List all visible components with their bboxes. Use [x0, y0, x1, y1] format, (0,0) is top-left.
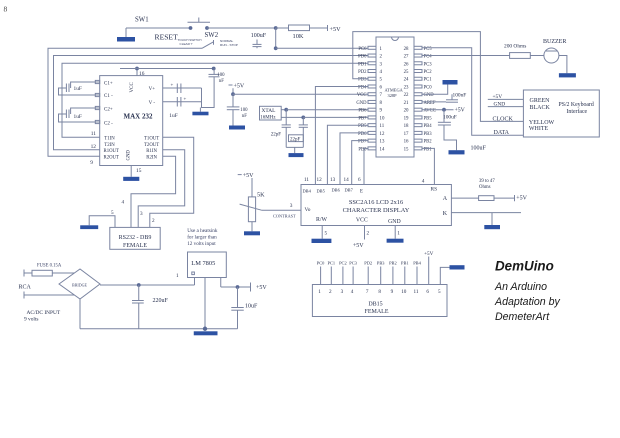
svg-text:ATMEGA: ATMEGA [385, 88, 404, 93]
svg-text:PC0: PC0 [317, 260, 325, 265]
svg-text:6: 6 [426, 289, 429, 295]
wire RESET to PC6 [276, 47, 368, 49]
MAX232 pin 16 VCC [136, 69, 138, 76]
svg-text:PC2: PC2 [424, 70, 433, 75]
svg-text:1uF: 1uF [169, 113, 177, 119]
svg-text:MAX 232: MAX 232 [124, 112, 153, 120]
ground bar (XTAL caps) [286, 146, 303, 148]
ground bar (DB15 pin5) [450, 265, 465, 269]
connector J2 PS-2 keyboard interface [523, 90, 599, 137]
ground bar (reset switch) [117, 37, 135, 42]
svg-text:C1 -: C1 - [104, 94, 113, 99]
LM7805 ground pin [204, 278, 206, 329]
svg-text:39 to 47: 39 to 47 [479, 179, 495, 184]
svg-text:T1OUT: T1OUT [144, 136, 159, 141]
svg-text:PC1: PC1 [424, 78, 433, 83]
svg-text:5: 5 [380, 78, 383, 83]
svg-text:5K: 5K [257, 191, 265, 198]
svg-text:16: 16 [404, 140, 409, 145]
wire GND pin22 [422, 85, 448, 95]
svg-text:VCC: VCC [357, 93, 367, 98]
svg-text:12 volts input: 12 volts input [187, 241, 216, 247]
DB15 pin 8 PB3 [380, 267, 382, 285]
svg-text:5: 5 [438, 289, 441, 295]
svg-text:25: 25 [404, 70, 409, 75]
ATmega pin 19 PB5 [414, 116, 422, 119]
potentiometer 5K [251, 178, 253, 197]
svg-text:Ohms: Ohms [479, 185, 491, 190]
svg-text:13: 13 [380, 140, 385, 145]
svg-text:1: 1 [397, 231, 400, 237]
svg-text:WHITE: WHITE [529, 126, 549, 132]
wire RXD net [54, 56, 368, 150]
svg-text:PB5: PB5 [424, 116, 433, 121]
svg-text:PB4: PB4 [424, 124, 433, 129]
ground bar (ATmega GND) [443, 80, 458, 85]
DB15 pin 6 +5V [428, 257, 430, 285]
LCD GND ground [394, 226, 396, 239]
svg-text:FUSE 0.15A: FUSE 0.15A [37, 263, 62, 268]
svg-text:PC3: PC3 [349, 260, 357, 265]
svg-text:C2 -: C2 - [104, 121, 113, 126]
wire PC5 to PS2 DATA [422, 48, 523, 135]
svg-text:GND: GND [356, 101, 367, 106]
svg-text:6: 6 [358, 177, 361, 183]
LM7805 input pin [194, 278, 196, 286]
svg-text:XTAL: XTAL [262, 108, 276, 114]
svg-text:+5V: +5V [516, 195, 527, 201]
svg-text:10K: 10K [293, 33, 304, 40]
DB15 pin 3 PC2 [342, 267, 344, 285]
pot to ground [251, 222, 253, 232]
svg-text:5: 5 [111, 210, 114, 216]
svg-text:16MHz: 16MHz [260, 116, 276, 121]
svg-text:+: + [171, 83, 174, 88]
svg-text:BUZZER: BUZZER [543, 39, 566, 45]
svg-text:1: 1 [176, 273, 179, 279]
svg-text:+5V: +5V [234, 83, 245, 89]
svg-text:7: 7 [366, 289, 369, 295]
svg-text:R2OUT: R2OUT [104, 156, 120, 161]
capacitor C4 (V-) [163, 101, 202, 103]
DB15 pin 9 PB2 [392, 267, 394, 285]
DB15 pin 4 PC3 [352, 267, 354, 285]
svg-text:PB1: PB1 [401, 260, 409, 265]
svg-text:nF: nF [242, 114, 247, 119]
svg-text:13: 13 [330, 177, 336, 183]
ground bar (VCC decoupling) [229, 126, 245, 130]
DB15 pin 5 ground [440, 267, 450, 284]
svg-text:DemUino: DemUino [495, 259, 554, 274]
wire bridge to rail [79, 299, 81, 329]
ATmega pin 26 PC3 [414, 62, 422, 65]
wire PD5 to LCD DB5 [327, 125, 367, 184]
svg-text:12: 12 [380, 132, 385, 137]
DB15 pin 2 PC1 [330, 267, 332, 285]
svg-text:3: 3 [140, 211, 143, 217]
svg-text:DemeterArt: DemeterArt [495, 311, 550, 323]
svg-text:R/W: R/W [316, 217, 327, 223]
svg-text:PB7: PB7 [358, 116, 367, 121]
RCA input ticks [23, 270, 25, 277]
svg-text:11: 11 [380, 124, 385, 129]
svg-text:9: 9 [391, 289, 394, 295]
svg-text:PC2: PC2 [339, 260, 347, 265]
svg-text:9: 9 [90, 160, 93, 166]
wire TXD net [62, 63, 368, 137]
regulator U3 LM7805 [188, 252, 227, 278]
svg-text:3: 3 [380, 62, 383, 67]
resistor backlight 39-47 Ohms [451, 197, 478, 199]
svg-text:1: 1 [380, 47, 383, 52]
svg-text:RCA: RCA [19, 285, 32, 291]
svg-text:8: 8 [4, 5, 8, 14]
ATmega pin 3 PD1 [368, 62, 376, 65]
svg-text:A: A [443, 196, 448, 202]
svg-text:14: 14 [344, 177, 350, 183]
svg-text:3: 3 [290, 203, 293, 209]
ground bar (MAX232 pin15) [123, 177, 139, 181]
svg-text:T2OUT: T2OUT [144, 143, 159, 148]
svg-text:100uF: 100uF [251, 33, 267, 39]
svg-text:2: 2 [329, 289, 332, 295]
svg-text:AC/DC INPUT: AC/DC INPUT [27, 310, 61, 316]
svg-text:FEMALE: FEMALE [365, 309, 389, 315]
svg-text:K: K [443, 211, 448, 217]
svg-text:10: 10 [401, 289, 407, 295]
capacitor C1 1uF [71, 82, 100, 88]
svg-text:100uF: 100uF [443, 115, 457, 121]
svg-text:V+: V+ [149, 87, 156, 92]
+5V supply (ATmega VCC) [229, 84, 233, 86]
node RESET junction [274, 26, 278, 30]
ATmega pin 7 VCC [368, 93, 376, 96]
svg-text:12: 12 [91, 144, 97, 150]
wire LCD K to ground [451, 212, 521, 214]
svg-text:SW1: SW1 [135, 17, 149, 24]
connector J3 DB15 body [312, 285, 447, 317]
svg-text:4: 4 [351, 289, 354, 295]
svg-text:C2+: C2+ [104, 107, 113, 112]
svg-text:PC3: PC3 [424, 62, 433, 67]
svg-text:V -: V - [149, 101, 156, 106]
capacitor 10uF [237, 287, 239, 308]
svg-text:CONTRAST: CONTRAST [273, 213, 296, 218]
svg-text:PB2: PB2 [389, 260, 397, 265]
wire VCC rail MAX232 [120, 68, 214, 70]
svg-text:11: 11 [91, 131, 96, 137]
svg-text:9 volts: 9 volts [24, 317, 39, 323]
DB15 pin 11 PB4 [416, 267, 418, 285]
svg-text:PS/2 Keyboard: PS/2 Keyboard [559, 102, 594, 108]
ground bar (MAX232 V caps) [199, 108, 201, 112]
svg-text:C1+: C1+ [104, 81, 113, 86]
capacitor 100nF (VCC decoupling) [232, 94, 234, 107]
svg-text:SSC2A16 LCD 2x16: SSC2A16 LCD 2x16 [349, 199, 403, 206]
ATmega pin 12 PD6 [368, 131, 376, 134]
ATmega pin 20 AVCC [414, 108, 422, 111]
wire DB9 pin5 to ground [89, 216, 115, 228]
wire XTAL1 net [281, 109, 286, 111]
DB15 pin 7 PD2 [367, 267, 369, 285]
svg-text:+5V: +5V [330, 26, 342, 33]
ATmega pin 15 PB1 [414, 147, 422, 150]
ATmega pin 9 PB6 [368, 108, 376, 111]
wire SW2 to R2OUT net [48, 48, 202, 156]
svg-text:10uF: 10uF [245, 304, 258, 310]
wire T1OUT to DB9 pin2 [150, 137, 194, 227]
svg-text:16: 16 [139, 71, 145, 77]
svg-text:4: 4 [380, 70, 383, 75]
ATmega pin 18 PB4 [414, 124, 422, 127]
+5V (contrast pot) [238, 174, 242, 176]
capacitor 100nF (MAX232 VCC) [209, 73, 220, 75]
capacitor 22pF (XTAL2) [302, 117, 304, 125]
svg-text:DATA: DATA [494, 130, 510, 136]
svg-text:10: 10 [380, 116, 385, 121]
ATmega pin 23 PC0 [414, 85, 422, 88]
capacitor C3 1uF (V+) [163, 87, 202, 89]
svg-text:9: 9 [380, 109, 383, 114]
capacitor 100nF (AREF) [422, 101, 446, 103]
svg-text:GND: GND [388, 219, 401, 225]
wire AC lower [24, 294, 74, 296]
svg-text:2: 2 [380, 55, 383, 60]
wire +5V output [221, 286, 251, 288]
svg-text:328P: 328P [388, 93, 398, 98]
svg-text:24: 24 [404, 78, 409, 83]
svg-text:100: 100 [217, 73, 225, 78]
DB15 pin 1 PC0 [320, 267, 322, 285]
svg-text:An Arduino: An Arduino [494, 281, 547, 293]
svg-text:PC1: PC1 [328, 260, 336, 265]
svg-text:26: 26 [404, 62, 409, 67]
ATmega pin 11 PD5 [368, 124, 376, 127]
ATmega pin 10 PB7 [368, 116, 376, 119]
ATmega pin 8 GND [368, 100, 376, 103]
svg-text:1: 1 [318, 289, 321, 295]
ground bar (buzzer) [559, 73, 576, 77]
op-amp U1 MAX232 body [100, 76, 163, 166]
LM7805 output pin [220, 278, 222, 288]
svg-text:5: 5 [325, 231, 328, 237]
wire PD6 to LCD DB6 [340, 133, 368, 185]
svg-text:Vo: Vo [305, 207, 311, 213]
svg-text:RESET: RESET [155, 33, 179, 42]
svg-text:R1OUT: R1OUT [104, 149, 120, 154]
svg-text:RS232 - DB9: RS232 - DB9 [119, 235, 152, 241]
svg-text:PD0: PD0 [358, 55, 367, 60]
ATmega pin 1 PC6 [368, 46, 376, 49]
svg-text:DB15: DB15 [368, 301, 382, 307]
svg-text:100uF: 100uF [471, 145, 487, 151]
svg-text:RUN - STOP: RUN - STOP [220, 43, 238, 47]
ATmega pin 16 PB2 [414, 139, 422, 142]
svg-text:SW2: SW2 [205, 32, 219, 39]
ATmega pin 4 PD2 [368, 70, 376, 73]
svg-text:+5V: +5V [256, 285, 267, 291]
svg-text:VCC: VCC [356, 217, 368, 223]
wire [126, 27, 190, 29]
svg-text:2: 2 [367, 231, 370, 237]
bridge rectifier [59, 269, 100, 299]
DB15 pin 10 PB1 [404, 267, 406, 285]
wire XTAL2 net [281, 116, 303, 118]
ATmega pin 21 AREF [414, 100, 422, 103]
IC U2 ATMEGA328 body [376, 37, 414, 157]
ground rail [80, 328, 238, 330]
svg-text:T1IN: T1IN [104, 136, 115, 141]
wire PD3 loop to PS2 CLOCK [353, 32, 524, 122]
capacitor 100uF (AVCC) [443, 110, 445, 123]
svg-text:GND: GND [127, 150, 132, 161]
+5V (reset pullup) [327, 25, 329, 31]
wire +5V to VCC pin7 [233, 93, 368, 95]
wire PD4 to LCD DB4 [315, 87, 367, 185]
svg-text:PB4: PB4 [413, 260, 421, 265]
svg-text:21: 21 [404, 101, 409, 106]
wire AVCC to +5V [422, 109, 454, 111]
svg-text:GREEN: GREEN [530, 98, 551, 104]
svg-text:CLOCK: CLOCK [493, 116, 514, 122]
wire [207, 27, 276, 29]
svg-text:22: 22 [404, 93, 409, 98]
MAX232 pin 15 ground stub [130, 166, 132, 177]
switch SW1 [189, 26, 193, 30]
svg-text:DB7: DB7 [345, 188, 354, 193]
wire bridge to regulator [100, 284, 195, 286]
svg-text:11: 11 [414, 289, 419, 295]
svg-text:E: E [360, 189, 363, 194]
ground bar (AVCC cap) [449, 150, 465, 154]
wire PB1 to LCD RS [422, 148, 434, 184]
ATmega pin 24 PC1 [414, 77, 422, 80]
capacitor 22pF (XTAL1) [285, 110, 287, 125]
wire buzzer to ground [559, 56, 567, 74]
svg-text:27: 27 [404, 55, 409, 60]
svg-text:1uF: 1uF [74, 114, 82, 120]
svg-text:8: 8 [380, 101, 383, 106]
svg-text:nF: nF [219, 79, 224, 84]
svg-text:PC6: PC6 [358, 47, 367, 52]
svg-text:for larger than: for larger than [187, 234, 217, 241]
svg-text:6: 6 [380, 85, 383, 90]
ground bar (DB9 pin5) [80, 225, 98, 229]
svg-text:220uF: 220uF [153, 298, 169, 304]
svg-text:Adaptation by: Adaptation by [494, 296, 560, 308]
connector J1 RS232 DB9 [110, 227, 160, 249]
svg-text:Interface: Interface [567, 108, 588, 115]
svg-text:17: 17 [404, 132, 409, 137]
svg-text:DB5: DB5 [317, 188, 326, 193]
svg-text:100nF: 100nF [453, 92, 467, 98]
switch SW2 [202, 42, 214, 49]
svg-text:23: 23 [404, 85, 409, 90]
svg-text:+5V: +5V [455, 108, 466, 114]
svg-text:BLACK: BLACK [530, 105, 551, 111]
ATmega pin 22 GND [414, 93, 422, 96]
ATmega pin 25 PC2 [414, 70, 422, 73]
ATmega pin 14 PB0 [368, 147, 376, 150]
svg-text:+5V: +5V [424, 251, 434, 257]
wire PB0 to LCD E [364, 148, 368, 184]
svg-text:11: 11 [304, 177, 309, 183]
svg-text:Use a heatsink: Use a heatsink [187, 228, 218, 234]
svg-text:19: 19 [404, 116, 409, 121]
crystal X1 16MHz [260, 106, 282, 120]
LCD display module [301, 185, 451, 226]
ATmega pin 17 PB3 [414, 131, 422, 134]
svg-text:DB4: DB4 [303, 188, 312, 193]
svg-text:8: 8 [378, 289, 381, 295]
wire PD7 to LCD DB7 [352, 141, 368, 185]
svg-text:T2IN: T2IN [104, 143, 115, 148]
ATmega pin 2 PD0 [368, 54, 376, 57]
svg-text:4: 4 [122, 200, 125, 206]
LCD VCC +5V [364, 226, 366, 240]
wire PC4 to buzzer [422, 55, 510, 57]
svg-text:VCC: VCC [130, 82, 135, 93]
resistor 10K [276, 27, 289, 29]
svg-text:100: 100 [240, 108, 248, 113]
svg-text:12: 12 [317, 177, 323, 183]
svg-text:20: 20 [404, 109, 409, 114]
svg-text:RS: RS [431, 187, 438, 193]
ATmega pin 6 PD4 [368, 85, 376, 88]
ATmega pin 28 PC5 [414, 46, 422, 49]
svg-text:1uF: 1uF [74, 86, 82, 92]
svg-text:7: 7 [380, 93, 383, 98]
svg-text:PB2: PB2 [424, 140, 433, 145]
capacitor 220uF [138, 285, 140, 301]
wire R2IN to DB9 pin4 [131, 156, 176, 227]
svg-text:2: 2 [152, 218, 155, 224]
resistor 200 Ohms [510, 53, 531, 59]
ground bar (LCD K) [484, 225, 500, 229]
svg-text:R1IN: R1IN [146, 149, 157, 154]
ATmega pin 27 PC4 [414, 54, 422, 57]
svg-text:14: 14 [380, 147, 385, 152]
buzzer BZ1 [544, 48, 559, 63]
svg-text:LM 7805: LM 7805 [191, 260, 215, 267]
ATmega pin 5 PD3 [368, 77, 376, 80]
LCD R/W ground [321, 226, 323, 239]
ground bar (regulator) [194, 331, 218, 335]
svg-text:FEMALE: FEMALE [123, 243, 147, 249]
wire V+ V- to ground [202, 77, 215, 108]
svg-text:22pF: 22pF [271, 133, 282, 138]
svg-text:18: 18 [404, 124, 409, 129]
svg-text:PB3: PB3 [424, 132, 433, 137]
svg-text:28: 28 [404, 47, 409, 52]
svg-text:BRIDGE: BRIDGE [72, 282, 87, 287]
svg-text:R2IN: R2IN [146, 156, 157, 161]
ATmega pin 13 PD7 [368, 139, 376, 142]
svg-text:PD2: PD2 [358, 70, 367, 75]
svg-text:CHARACTER DISPLAY: CHARACTER DISPLAY [343, 207, 410, 214]
svg-text:15: 15 [404, 147, 409, 152]
svg-text:+5V: +5V [353, 243, 364, 249]
wire R1IN to DB9 pin3 [138, 150, 185, 228]
svg-text:PB3: PB3 [377, 260, 385, 265]
wire wiper to LCD Vo [262, 209, 301, 211]
svg-text:PC0: PC0 [424, 85, 433, 90]
svg-text:3: 3 [341, 289, 344, 295]
svg-text:DB6: DB6 [332, 188, 341, 193]
svg-text:PD2: PD2 [364, 260, 372, 265]
svg-text:CLEAR ?: CLEAR ? [180, 42, 193, 46]
svg-text:YELLOW: YELLOW [529, 120, 555, 126]
